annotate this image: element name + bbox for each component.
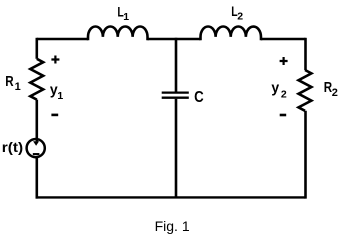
capacitor C [162,93,189,98]
svg-text:2: 2 [332,87,338,99]
svg-text:r(t): r(t) [2,139,23,155]
wire right vertical upper [304,38,307,70]
wire left vertical lower [35,158,38,199]
resistor R2 [299,70,312,111]
svg-text:2: 2 [237,11,243,23]
label minus left [51,114,58,117]
wire left vertical middle [35,100,38,140]
wire bottom horizontal [36,196,306,198]
svg-text:Fig. 1: Fig. 1 [155,218,190,234]
svg-text:1: 1 [123,11,129,23]
wire left vertical upper [35,38,38,59]
source r(t) [27,139,45,157]
svg-text:2: 2 [281,89,287,101]
svg-text:1: 1 [15,81,21,93]
wire top-left horizontal [37,38,88,40]
wire right vertical lower [304,111,307,199]
label minus right [280,114,287,117]
svg-text:y: y [271,81,279,97]
wire middle vertical upper [175,38,178,92]
inductor L1 [88,26,148,40]
resistor R1 [30,59,43,100]
label plus left [51,56,59,64]
wire top-middle horizontal [148,38,201,40]
svg-text:R: R [5,73,14,90]
svg-text:1: 1 [57,90,63,102]
wire top-right horizontal [261,38,306,40]
wire middle vertical lower [175,99,178,198]
svg-text:C: C [194,89,204,106]
inductor L2 [201,27,261,41]
label plus right [280,57,288,65]
